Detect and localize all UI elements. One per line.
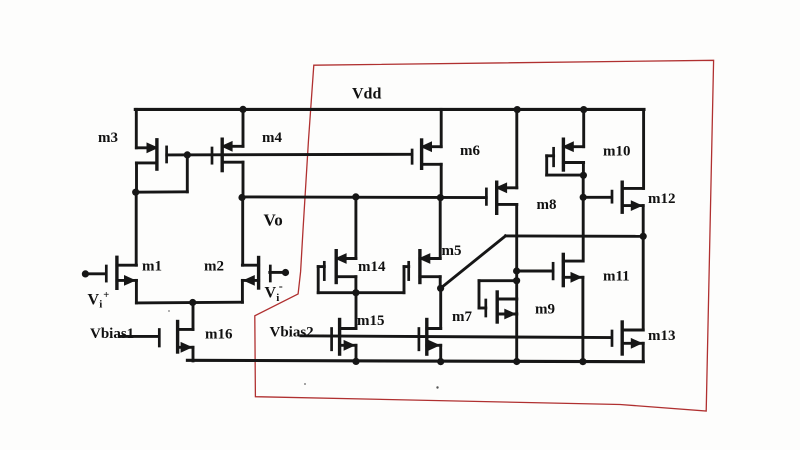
svg-text:m3: m3 <box>98 130 118 146</box>
svg-text:Vo: Vo <box>264 211 283 230</box>
svg-text:Vbias2: Vbias2 <box>270 325 314 341</box>
svg-text:m7: m7 <box>452 309 472 325</box>
svg-text:m10: m10 <box>603 144 631 160</box>
svg-text:V: V <box>88 291 100 308</box>
svg-text:Vbias1: Vbias1 <box>90 326 134 342</box>
svg-text:Vdd: Vdd <box>352 86 381 103</box>
svg-text:m5: m5 <box>442 243 462 259</box>
svg-text:m8: m8 <box>537 197 557 213</box>
svg-text:m11: m11 <box>603 269 630 285</box>
svg-text:i: i <box>99 299 102 311</box>
svg-text:m15: m15 <box>357 313 385 329</box>
svg-text:m9: m9 <box>535 302 555 318</box>
svg-text:m14: m14 <box>358 259 386 275</box>
svg-text:+: + <box>103 290 109 301</box>
svg-text:m1: m1 <box>142 259 162 275</box>
svg-text:m4: m4 <box>262 130 282 146</box>
svg-text:m16: m16 <box>205 327 233 343</box>
svg-text:-: - <box>279 279 283 293</box>
svg-text:i: i <box>276 292 279 304</box>
svg-text:m12: m12 <box>648 191 676 207</box>
svg-text:m6: m6 <box>460 143 480 159</box>
svg-text:m2: m2 <box>204 259 224 275</box>
svg-text:V: V <box>265 284 277 301</box>
svg-text:m13: m13 <box>648 328 676 344</box>
